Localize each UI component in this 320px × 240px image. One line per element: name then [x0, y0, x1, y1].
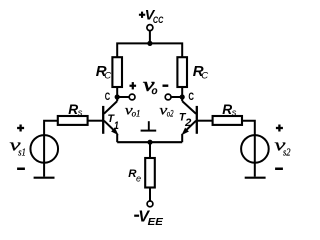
resistor Re [145, 158, 155, 188]
transistor T2 [181, 97, 196, 142]
label vo [143, 75, 158, 97]
label vo2 [159, 103, 173, 119]
svg-text:s2: s2 [283, 148, 291, 159]
transistor T1 [103, 97, 118, 142]
svg-text:1: 1 [114, 120, 119, 132]
terminal -VEE [147, 201, 153, 207]
source vs1 [30, 134, 58, 177]
label T2 [179, 112, 192, 130]
label - (vs1) [17, 168, 25, 171]
terminal +VCC [147, 25, 153, 31]
wire T1 base to Rs left [88, 120, 103, 122]
svg-text:C: C [104, 70, 111, 81]
resistor Rs left [58, 116, 88, 125]
junction dot VCC rail [147, 41, 152, 46]
svg-text:o1: o1 [132, 110, 141, 120]
svg-text:EE: EE [148, 217, 164, 228]
wire Rs right to source vs2 [242, 121, 255, 135]
svg-text:o2: o2 [167, 110, 174, 120]
node C left [115, 94, 120, 99]
wire Rs left to source vs1 [44, 121, 58, 135]
wire T2 base to Rs right [198, 120, 213, 122]
svg-text:e: e [136, 173, 141, 183]
junction dot emitter rail [147, 140, 152, 145]
label vs2 [274, 136, 291, 159]
svg-text:C: C [188, 91, 194, 103]
label -VEE [134, 208, 164, 228]
label +VCC [139, 8, 164, 25]
ground vs1 [34, 177, 55, 179]
wire collector left to vo+ terminal [117, 96, 129, 98]
wire top rail [117, 43, 182, 57]
svg-text:s1: s1 [18, 148, 26, 159]
source vs2 [241, 134, 269, 177]
terminal vo+ [129, 94, 135, 100]
wire vo- terminal to collector right [171, 96, 182, 98]
svg-text:s: s [78, 108, 83, 118]
svg-text:2: 2 [184, 117, 191, 129]
label Rs right [222, 102, 237, 118]
label Re [128, 168, 141, 183]
label + (vs1) [17, 125, 24, 132]
wire VCC to rail [149, 31, 151, 44]
label + (vs2) [276, 125, 283, 132]
svg-text:C: C [105, 91, 111, 103]
svg-text:s: s [232, 108, 237, 118]
wire Re to VEE terminal [149, 188, 151, 202]
wire RC right to collector [181, 87, 183, 97]
svg-text:R: R [68, 102, 78, 117]
resistor RC left [112, 57, 122, 87]
svg-text:CC: CC [153, 14, 164, 25]
label + (vo) [130, 82, 137, 89]
wire RC left to collector [116, 87, 118, 97]
terminal vo- [165, 94, 171, 100]
label T1 [107, 113, 119, 132]
label vo1 [125, 103, 141, 119]
label Rs left [68, 102, 83, 118]
svg-text:o: o [152, 85, 158, 97]
svg-text:R: R [222, 102, 232, 117]
label vs1 [10, 136, 26, 159]
wire emitter rail to Re [149, 142, 151, 158]
wire emitter rail [117, 141, 182, 143]
label - (vo) [163, 85, 169, 87]
label RC left [96, 63, 112, 81]
resistor Rs right [213, 116, 242, 125]
label - (vs2) [275, 168, 283, 171]
ground reference output [141, 121, 157, 130]
svg-text:C: C [201, 70, 208, 81]
label RC right [193, 63, 209, 81]
resistor RC right [177, 57, 187, 87]
node C right [180, 94, 185, 99]
ground vs2 [245, 177, 266, 179]
